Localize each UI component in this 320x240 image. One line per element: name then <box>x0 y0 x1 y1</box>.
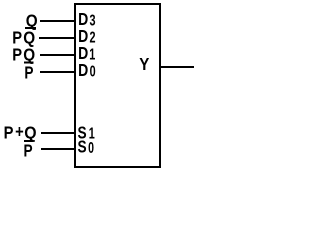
overline on P of P-bar (D0 input label) <box>24 62 34 64</box>
svg-text:1: 1 <box>89 46 95 63</box>
svg-text:D: D <box>78 61 88 81</box>
wire D1 input <box>40 54 75 56</box>
svg-text:2: 2 <box>90 29 96 46</box>
overline on Q of PQ-bar (D2 input label) <box>25 27 36 29</box>
svg-text:P: P <box>12 45 22 65</box>
svg-text:P: P <box>24 64 33 83</box>
svg-text:S: S <box>77 138 86 157</box>
wire D0 input <box>40 71 75 73</box>
svg-text:0: 0 <box>90 63 96 80</box>
overline on P of P-bar (S0 select label) <box>24 140 33 142</box>
svg-text:3: 3 <box>90 12 96 29</box>
svg-text:Q: Q <box>24 122 36 142</box>
svg-text:0: 0 <box>88 139 94 157</box>
svg-text:P: P <box>4 123 14 143</box>
wire Y output <box>160 66 194 68</box>
wire D2 input <box>39 37 75 39</box>
wire S0 select input <box>41 148 75 150</box>
svg-text:Y: Y <box>139 54 149 75</box>
wire S1 select input <box>41 132 75 134</box>
multiplexer U1 box <box>75 4 160 167</box>
svg-text:+: + <box>15 122 24 142</box>
svg-text:P: P <box>24 142 33 161</box>
4-to-1 multiplexer circuit schematic <box>0 0 197 172</box>
wire D3 input <box>40 20 75 22</box>
